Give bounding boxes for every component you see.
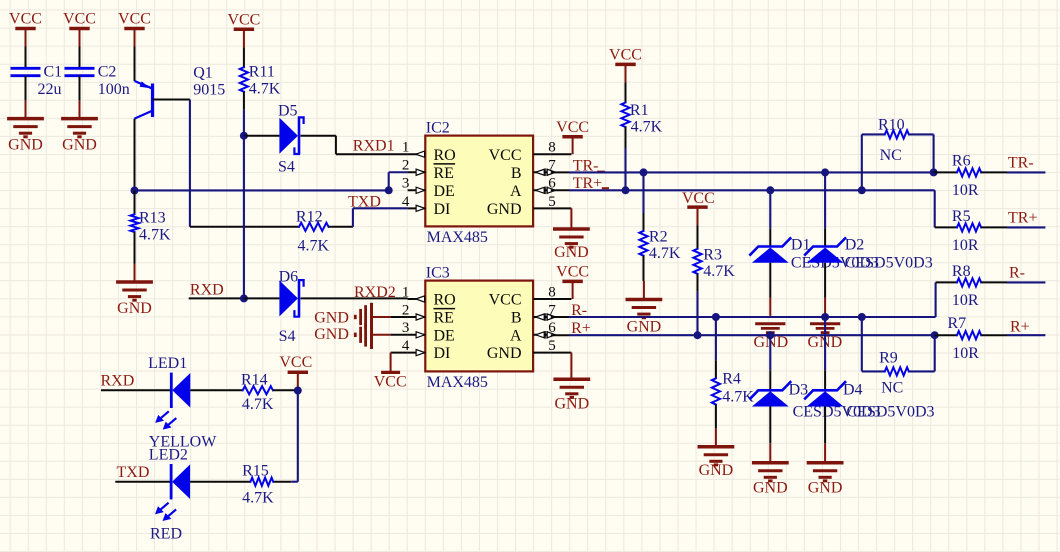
- diode D2 CESD5V0D3 TVS: [805, 238, 845, 254]
- svg-text:22u: 22u: [38, 81, 62, 98]
- svg-text:VCC: VCC: [63, 11, 96, 28]
- wire: [934, 190, 936, 227]
- wire TR- out: [981, 171, 1007, 173]
- svg-text:VCC: VCC: [556, 263, 589, 280]
- wire: [769, 190, 771, 228]
- wire TXD: [329, 226, 353, 228]
- svg-text:10R: 10R: [952, 182, 979, 199]
- power port VCC (R1): [615, 63, 635, 67]
- wire: [935, 282, 937, 317]
- svg-text:R12: R12: [296, 209, 323, 226]
- power port VCC (R11): [234, 28, 254, 32]
- wire: [643, 256, 645, 281]
- svg-text:CESD5V0D3: CESD5V0D3: [847, 404, 935, 421]
- svg-text:D5: D5: [278, 103, 298, 120]
- svg-text:R15: R15: [242, 463, 269, 480]
- node R14/VCC junction: [294, 387, 302, 395]
- svg-text:1: 1: [402, 284, 410, 300]
- svg-text:4.7K: 4.7K: [631, 119, 663, 136]
- svg-text:R10: R10: [878, 117, 905, 134]
- svg-text:R13: R13: [139, 210, 166, 227]
- svg-text:R+: R+: [1010, 319, 1030, 336]
- resistor R9 NC: [861, 317, 863, 371]
- wire Q1 collector: [134, 119, 136, 191]
- resistor R7: [935, 334, 957, 336]
- svg-text:10R: 10R: [952, 237, 979, 254]
- svg-text:RE: RE: [434, 310, 454, 327]
- resistor R14: [243, 386, 273, 394]
- resistor R13: [134, 191, 136, 215]
- svg-text:TXD: TXD: [117, 464, 150, 481]
- svg-text:R2: R2: [649, 229, 668, 246]
- wire: [101, 389, 171, 391]
- wire: [134, 47, 136, 82]
- wire: [25, 76, 27, 101]
- svg-text:VCC: VCC: [374, 374, 407, 391]
- wire: [244, 297, 280, 299]
- svg-text:RXD1: RXD1: [353, 138, 395, 155]
- svg-text:GND: GND: [808, 480, 843, 497]
- LED LED1 YELLOW: [170, 373, 173, 408]
- svg-text:TR+: TR+: [1008, 210, 1037, 227]
- wire: [824, 317, 826, 370]
- svg-text:GND: GND: [487, 345, 522, 362]
- svg-text:R-: R-: [1009, 265, 1025, 282]
- resistor R4: [715, 317, 717, 360]
- resistor R12: [299, 223, 328, 231]
- wire: [244, 135, 280, 137]
- node R10 to TR+: [858, 186, 866, 194]
- svg-text:GND: GND: [314, 326, 349, 343]
- svg-text:100n: 100n: [98, 81, 130, 98]
- node R9 to R+: [931, 331, 939, 339]
- capacitor C2: [65, 67, 95, 70]
- svg-text:VCC: VCC: [9, 11, 42, 28]
- svg-text:GND: GND: [62, 137, 97, 154]
- ground GND (R2): [643, 281, 645, 300]
- power port VCC (Q1): [124, 27, 144, 31]
- ground GND (IC3 pin3): [391, 334, 408, 336]
- wire RXD: [189, 297, 244, 299]
- svg-text:3: 3: [402, 176, 410, 192]
- svg-text:B: B: [511, 165, 522, 182]
- node RXD junction: [240, 294, 248, 302]
- svg-text:RED: RED: [150, 526, 182, 543]
- resistor R1: [625, 82, 627, 102]
- svg-text:DE: DE: [434, 327, 455, 344]
- power port VCC (IC3 pin4): [391, 352, 408, 354]
- svg-text:DE: DE: [434, 183, 455, 200]
- node D3 to R+: [766, 331, 774, 339]
- ground GND (IC2 pin5): [551, 207, 572, 209]
- diode D3 CESD5V0D3 TVS: [750, 382, 790, 398]
- ground GND (D3): [769, 444, 771, 463]
- IC IC3 MAX485: [425, 281, 533, 372]
- svg-text:A: A: [510, 183, 522, 200]
- wire Q1 base: [153, 99, 190, 101]
- ground GND (D1): [755, 322, 785, 325]
- wire: [697, 274, 699, 292]
- svg-text:LED1: LED1: [148, 355, 187, 372]
- power port VCC (R3): [687, 205, 707, 209]
- wire: [625, 127, 627, 148]
- svg-text:VCC: VCC: [227, 11, 260, 28]
- wire: [769, 407, 771, 444]
- svg-text:R1: R1: [630, 102, 649, 119]
- svg-text:D2: D2: [845, 237, 865, 254]
- wire R- bus: [551, 316, 569, 318]
- diode D5 S4: [279, 118, 298, 154]
- node D4 to R-: [821, 313, 829, 321]
- svg-text:D4: D4: [843, 382, 863, 399]
- wire: [769, 263, 771, 298]
- svg-text:R14: R14: [241, 372, 268, 389]
- wire: [273, 389, 298, 391]
- svg-text:VCC: VCC: [609, 46, 642, 63]
- transistor Q1 9015 PNP: [151, 84, 154, 118]
- svg-text:R9: R9: [879, 350, 898, 367]
- node D5/R11 junction: [240, 132, 248, 140]
- power port VCC (R14): [288, 370, 308, 374]
- wire RE/DE tie: [389, 171, 408, 173]
- svg-text:LED2: LED2: [149, 447, 188, 464]
- svg-text:GND: GND: [8, 137, 43, 154]
- node Q1 collector junction: [131, 187, 139, 195]
- wire: [190, 481, 250, 483]
- wire RXD2: [301, 297, 408, 299]
- svg-text:RE: RE: [434, 165, 454, 182]
- wire: [824, 263, 826, 298]
- node R10 to TR-: [930, 168, 938, 176]
- capacitor C1: [11, 67, 41, 70]
- ground GND (R4): [715, 428, 717, 447]
- svg-text:IC2: IC2: [426, 119, 450, 136]
- wire R+ out: [981, 334, 1007, 336]
- wire: [134, 232, 136, 264]
- svg-text:C1: C1: [44, 64, 63, 81]
- svg-text:C2: C2: [98, 64, 117, 81]
- svg-text:VCC: VCC: [556, 119, 589, 136]
- power port VCC (C1): [15, 27, 35, 31]
- svg-text:GND: GND: [627, 319, 662, 336]
- ground GND (IC3 pin5): [551, 352, 572, 354]
- svg-text:GND: GND: [753, 480, 788, 497]
- svg-text:R4: R4: [722, 371, 741, 388]
- svg-text:GND: GND: [314, 310, 349, 327]
- svg-text:GND: GND: [554, 396, 589, 413]
- svg-text:4: 4: [402, 194, 410, 210]
- svg-text:CESD5V0D3: CESD5V0D3: [845, 255, 933, 272]
- svg-text:4.7K: 4.7K: [722, 389, 754, 406]
- svg-text:DI: DI: [434, 201, 451, 218]
- wire: [79, 76, 81, 101]
- node D1 to TR+: [766, 186, 774, 194]
- wire: [715, 405, 717, 429]
- svg-text:GND: GND: [699, 462, 734, 479]
- svg-text:RO: RO: [434, 147, 456, 164]
- wire RXD1: [301, 135, 336, 137]
- node R2 to TR-: [640, 168, 648, 176]
- svg-text:NC: NC: [880, 147, 902, 164]
- svg-text:B: B: [511, 310, 522, 327]
- svg-text:D3: D3: [789, 382, 809, 399]
- node D2 to TR-: [821, 168, 829, 176]
- svg-text:RXD2: RXD2: [354, 284, 396, 301]
- resistor R5: [935, 226, 957, 228]
- svg-text:GND: GND: [117, 300, 152, 317]
- power port VCC (IC3 pin8): [551, 298, 572, 300]
- node R9 to R-: [858, 313, 866, 321]
- svg-text:VCC: VCC: [489, 292, 522, 309]
- wire TR- bus: [551, 171, 569, 173]
- wire TR+ bus: [551, 189, 569, 191]
- resistor R3: [697, 225, 699, 249]
- svg-text:A: A: [510, 327, 522, 344]
- svg-text:VCC: VCC: [682, 190, 715, 207]
- svg-text:RXD: RXD: [190, 282, 224, 299]
- wire: [190, 226, 299, 228]
- wire: [297, 391, 299, 482]
- wire TR+ out: [981, 226, 1007, 228]
- wire: [769, 335, 771, 370]
- svg-text:IC3: IC3: [426, 264, 450, 281]
- svg-text:GND: GND: [487, 201, 522, 218]
- svg-text:R5: R5: [952, 208, 971, 225]
- wire: [115, 481, 171, 483]
- svg-text:MAX485: MAX485: [427, 374, 488, 391]
- svg-text:VCC: VCC: [118, 11, 151, 28]
- svg-text:VCC: VCC: [279, 354, 312, 371]
- svg-text:9015: 9015: [193, 82, 225, 99]
- diode D6 S4: [279, 280, 298, 316]
- svg-text:Q1: Q1: [193, 65, 213, 82]
- svg-text:RO: RO: [434, 292, 456, 309]
- diode D1 CESD5V0D3 TVS: [750, 238, 790, 254]
- wire: [824, 172, 826, 228]
- ground GND (IC3 pin2): [391, 316, 408, 318]
- node R4 to R-: [712, 313, 720, 321]
- svg-text:R6: R6: [952, 153, 971, 170]
- wire R+ bus: [551, 334, 569, 336]
- IC IC2 MAX485: [425, 136, 533, 227]
- svg-text:4.7K: 4.7K: [242, 396, 274, 413]
- wire: [190, 389, 242, 391]
- diode D4 CESD5V0D3 TVS: [805, 382, 845, 398]
- wire R11 junction to RXD: [243, 136, 245, 299]
- resistor R11: [243, 47, 245, 67]
- wire R- out: [981, 281, 1007, 283]
- resistor R15: [251, 478, 274, 486]
- svg-text:4.7K: 4.7K: [249, 81, 281, 98]
- power port VCC (IC2 pin8): [551, 153, 572, 155]
- svg-text:TR-: TR-: [1008, 155, 1034, 172]
- svg-text:R8: R8: [952, 263, 971, 280]
- wire: [243, 92, 245, 110]
- svg-text:GND: GND: [554, 244, 589, 261]
- svg-text:4.7K: 4.7K: [649, 245, 681, 262]
- svg-text:4.7K: 4.7K: [703, 263, 735, 280]
- resistor R2: [642, 172, 644, 213]
- svg-text:VCC: VCC: [489, 147, 522, 164]
- svg-text:TXD: TXD: [348, 194, 381, 211]
- svg-text:4.7K: 4.7K: [139, 227, 171, 244]
- svg-text:R7: R7: [948, 315, 967, 332]
- wire: [79, 47, 81, 69]
- ground GND (R13): [134, 264, 136, 283]
- svg-text:R11: R11: [249, 64, 275, 81]
- wire to IC2 RE/DE: [135, 189, 389, 191]
- svg-text:10R: 10R: [952, 292, 979, 309]
- node R3 to R+: [694, 331, 702, 339]
- ground GND (C2): [79, 101, 81, 119]
- ground GND (D2): [810, 322, 840, 325]
- wire: [25, 47, 27, 69]
- svg-text:R3: R3: [703, 247, 722, 264]
- resistor R8: [936, 281, 957, 283]
- power port VCC (C2): [69, 27, 89, 31]
- svg-text:4.7K: 4.7K: [298, 238, 330, 255]
- svg-text:S4: S4: [278, 159, 295, 176]
- resistor R6: [934, 171, 957, 173]
- svg-text:MAX485: MAX485: [427, 229, 488, 246]
- resistor R10 NC: [861, 134, 863, 190]
- svg-text:RXD: RXD: [101, 373, 135, 390]
- ground GND (D4): [824, 444, 826, 463]
- svg-text:10R: 10R: [952, 345, 979, 362]
- svg-text:D6: D6: [279, 269, 299, 286]
- svg-text:DI: DI: [434, 345, 451, 362]
- svg-text:1: 1: [402, 140, 410, 156]
- node R1 to TR+: [622, 186, 630, 194]
- wire: [824, 407, 826, 444]
- svg-text:4.7K: 4.7K: [242, 490, 274, 507]
- svg-text:NC: NC: [881, 380, 903, 397]
- LED LED2 RED: [170, 464, 173, 499]
- node RE/DE junction: [385, 186, 393, 194]
- ground GND (C1): [25, 101, 27, 119]
- svg-text:S4: S4: [279, 328, 296, 345]
